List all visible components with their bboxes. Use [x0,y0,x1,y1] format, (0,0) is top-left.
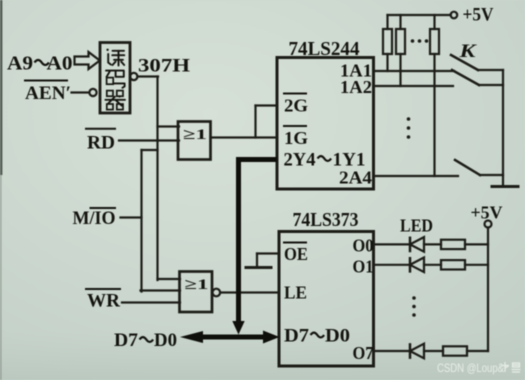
svg-text:2A4: 2A4 [339,168,372,188]
svg-text:LE: LE [284,283,307,303]
svg-text:A0: A0 [47,53,73,75]
svg-text:OE: OE [284,244,308,264]
svg-text:74LS373: 74LS373 [293,210,359,231]
svg-text:2Y4: 2Y4 [284,151,316,171]
svg-text:1A2: 1A2 [340,77,372,97]
svg-text:D0: D0 [325,327,350,347]
svg-text:D7: D7 [284,327,309,347]
svg-text:74LS244: 74LS244 [289,39,360,60]
svg-text:+5V: +5V [471,203,503,223]
svg-text:LED: LED [400,216,433,236]
svg-text:O0: O0 [353,236,374,256]
svg-text:≥1: ≥1 [185,277,209,293]
svg-text:2G: 2G [284,96,308,116]
svg-text:1G: 1G [284,128,308,148]
svg-text:CSDN @Loup&: CSDN @Loup& [437,361,504,375]
svg-text:M/IO: M/IO [73,208,116,229]
svg-text:D7: D7 [114,330,139,351]
svg-text:≥1: ≥1 [183,127,207,143]
svg-text:O1: O1 [353,257,374,277]
svg-text:O7: O7 [353,343,374,363]
svg-text:AEN′: AEN′ [25,83,71,104]
svg-text:+5V: +5V [463,6,495,26]
svg-text:RD: RD [87,133,115,154]
svg-text:A9: A9 [7,53,33,75]
svg-text:D0: D0 [154,330,177,351]
svg-text:K: K [458,41,477,62]
svg-text:307H: 307H [138,56,190,77]
svg-text:WR: WR [87,291,120,312]
